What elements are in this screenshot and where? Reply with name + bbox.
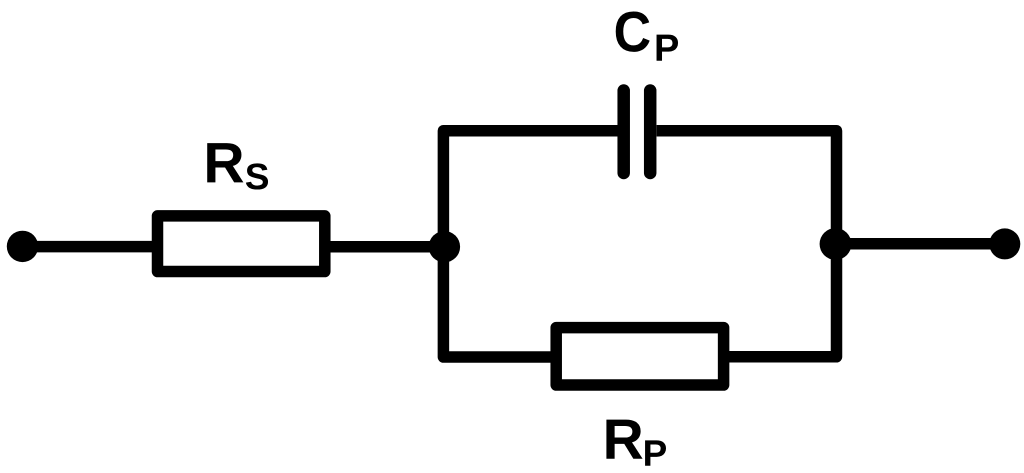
label RP	[606, 420, 666, 466]
label CP	[616, 12, 678, 61]
node right junction	[820, 228, 852, 260]
wire RS to left junction	[322, 241, 444, 253]
label RS	[207, 143, 268, 189]
terminal node left	[7, 231, 38, 262]
node left junction	[429, 231, 460, 262]
wire left branch of parallel loop	[443, 131, 617, 357]
capacitor CP	[624, 91, 651, 174]
wire left-terminal to RS	[23, 241, 161, 253]
wire right junction to right terminal	[836, 238, 1006, 250]
terminal node right	[989, 228, 1020, 259]
resistor RS	[158, 216, 325, 272]
wire right branch of parallel loop	[657, 131, 837, 357]
resistor RP	[556, 328, 723, 385]
